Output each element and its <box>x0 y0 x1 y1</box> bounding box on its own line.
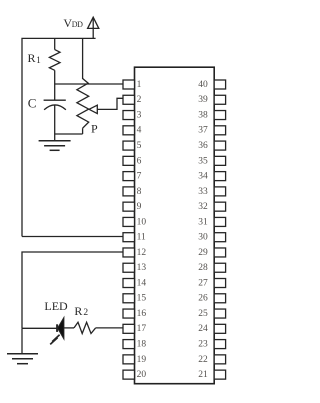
svg-text:39: 39 <box>198 95 208 105</box>
svg-text:12: 12 <box>137 248 147 258</box>
svg-text:3: 3 <box>137 110 142 120</box>
svg-text:2: 2 <box>137 95 142 105</box>
svg-text:14: 14 <box>137 278 147 288</box>
svg-text:13: 13 <box>137 263 147 273</box>
svg-text:16: 16 <box>137 309 147 319</box>
svg-text:DD: DD <box>72 20 83 29</box>
svg-text:C: C <box>28 95 37 110</box>
svg-text:10: 10 <box>137 217 147 227</box>
svg-text:40: 40 <box>198 80 208 90</box>
svg-text:17: 17 <box>137 324 147 334</box>
svg-text:32: 32 <box>198 202 208 212</box>
svg-text:9: 9 <box>137 202 142 212</box>
svg-text:30: 30 <box>198 233 208 243</box>
svg-text:1: 1 <box>36 55 41 65</box>
svg-text:35: 35 <box>198 156 208 166</box>
svg-text:R: R <box>74 304 82 318</box>
svg-text:27: 27 <box>198 278 208 288</box>
svg-text:29: 29 <box>198 248 208 258</box>
svg-text:P: P <box>91 121 98 135</box>
svg-text:7: 7 <box>137 172 142 182</box>
svg-text:37: 37 <box>198 126 208 136</box>
svg-text:18: 18 <box>137 339 147 349</box>
svg-text:28: 28 <box>198 263 208 273</box>
svg-text:33: 33 <box>198 187 208 197</box>
svg-text:4: 4 <box>137 126 142 136</box>
svg-text:25: 25 <box>198 309 208 319</box>
svg-text:19: 19 <box>137 355 147 365</box>
svg-text:21: 21 <box>198 370 208 380</box>
svg-text:26: 26 <box>198 294 208 304</box>
svg-text:15: 15 <box>137 294 147 304</box>
svg-text:2: 2 <box>83 308 88 318</box>
svg-text:23: 23 <box>198 339 208 349</box>
svg-text:34: 34 <box>198 172 208 182</box>
svg-text:38: 38 <box>198 110 208 120</box>
svg-text:22: 22 <box>198 355 208 365</box>
svg-text:5: 5 <box>137 141 142 151</box>
svg-text:R: R <box>28 51 36 65</box>
svg-text:11: 11 <box>137 233 146 243</box>
svg-text:LED: LED <box>44 299 68 313</box>
svg-text:8: 8 <box>137 187 142 197</box>
svg-text:36: 36 <box>198 141 208 151</box>
svg-text:6: 6 <box>137 156 142 166</box>
svg-text:31: 31 <box>198 217 208 227</box>
svg-text:24: 24 <box>198 324 208 334</box>
svg-text:1: 1 <box>137 80 142 90</box>
svg-text:20: 20 <box>137 370 147 380</box>
